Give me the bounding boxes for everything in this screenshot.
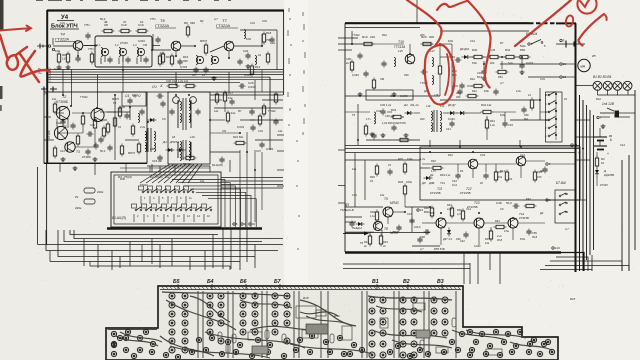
wire node rows right: [562, 63, 575, 65]
wire stub y203 from seam: [338, 202, 345, 204]
diode Д7: [460, 111, 464, 115]
pcb part small: [330, 334, 334, 343]
svg-text:Т3: Т3: [76, 150, 80, 154]
svg-text:4,7: 4,7: [565, 227, 569, 231]
wire r-extra-1: [345, 27, 420, 29]
stub lines from seam y44: [338, 43, 362, 45]
wire drop rp e: [499, 253, 501, 285]
svg-text:8,8к: 8,8к: [448, 39, 454, 43]
PCB divider lines: [197, 291, 199, 358]
svg-text:0,033: 0,033: [237, 125, 244, 129]
capacitor C25b: [240, 83, 242, 88]
wire r-extra-4: [345, 95, 440, 97]
svg-text:10: 10: [601, 161, 605, 165]
svg-text:R15: R15: [166, 55, 172, 59]
pad: [425, 351, 430, 356]
PCB pad column B7: [272, 293, 278, 299]
svg-text:С45: С45: [490, 48, 496, 52]
bracket wire 5: [202, 196, 251, 228]
pad: [387, 349, 392, 354]
frame inner vertical wire: [37, 167, 39, 245]
junction: [62, 94, 64, 96]
svg-text:220: 220: [370, 35, 375, 39]
wire l-extra-8: [269, 77, 271, 150]
wire l-extra-23: [210, 151, 240, 153]
filter cell 3 coil: [137, 48, 139, 57]
bus line 6: [48, 81, 241, 83]
capacitor Cy2: [363, 72, 368, 74]
wire fan 1: [146, 164, 174, 183]
junction: [261, 45, 263, 47]
resistor R21 mid: [438, 66, 441, 74]
node 3: [528, 43, 530, 45]
svg-text:Т1ГЕ2А-Б: Т1ГЕ2А-Б: [340, 208, 354, 212]
pad: [265, 349, 270, 354]
resistor R37b: [489, 231, 492, 239]
svg-text:0,033: 0,033: [180, 65, 187, 69]
svg-text:С38: С38: [420, 235, 425, 239]
pad: [497, 352, 502, 357]
wire rp jack line2: [619, 116, 630, 118]
svg-text:L5: L5: [564, 97, 567, 101]
svg-text:47: 47: [123, 20, 127, 24]
pcb part small: [226, 344, 230, 353]
svg-text:R12: R12: [470, 77, 475, 81]
junction: [62, 119, 64, 121]
ground: [393, 92, 395, 94]
connector block inner rect: [114, 175, 218, 224]
ground: [58, 65, 60, 67]
PCB pad column B7 extra: [272, 329, 278, 335]
capacitor Cx9: [249, 110, 254, 112]
svg-text:МП37: МП37: [112, 97, 120, 101]
junction: [404, 211, 406, 213]
pcb part outline: [316, 310, 326, 316]
svg-text:КТ315Б: КТ315Б: [519, 216, 529, 220]
node 10: [249, 223, 251, 225]
pad: [417, 347, 422, 352]
junction: [246, 151, 248, 153]
wire block to bus: [549, 163, 575, 165]
wire bl h8: [90, 265, 230, 267]
right block frame top edge: [345, 22, 529, 24]
right block frame top dashes: [529, 22, 556, 24]
pad: [123, 347, 128, 352]
resistor R9: [186, 27, 189, 35]
svg-text:С9: С9: [500, 207, 504, 211]
svg-text:В3: В3: [437, 279, 444, 285]
ground: [405, 133, 407, 135]
junction: [96, 107, 98, 109]
connector row boxes r1: [139, 186, 144, 190]
svg-text:R21: R21: [364, 240, 369, 244]
resistor R8: [57, 54, 60, 62]
red curve into loop top: [407, 0, 442, 46]
svg-text:10: 10: [252, 222, 256, 226]
svg-text:50,0: 50,0: [100, 17, 106, 21]
wire r-extra-7: [345, 159, 420, 161]
svg-text:11З: 11З: [555, 246, 560, 250]
sub-block frame row2: [44, 92, 147, 163]
contact r2-7: [195, 209, 197, 211]
svg-text:30,8: 30,8: [532, 235, 538, 239]
wire bl h3: [38, 244, 284, 246]
wire r-extra-16: [519, 140, 521, 147]
node 7: [597, 116, 599, 118]
label C4 SchRO box: [122, 92, 146, 106]
capacitor C45m: [483, 174, 488, 176]
wire drop: [204, 251, 206, 271]
ground: [94, 157, 96, 159]
wire off-page top: [416, 0, 418, 23]
wire bl h6: [64, 230, 262, 242]
capacitor C43: [455, 174, 460, 176]
wire rp tie3: [576, 199, 587, 201]
svg-text:Д4: Д4: [403, 103, 408, 107]
red small o loop: [565, 15, 574, 27]
junction: [429, 151, 431, 153]
junction: [194, 45, 196, 47]
junction: [147, 121, 149, 123]
svg-text:ГТ322А: ГТ322А: [55, 37, 69, 42]
pad: [249, 353, 254, 358]
pad: [469, 347, 474, 352]
svg-text:R18: R18: [303, 296, 309, 300]
svg-text:R7: R7: [500, 41, 504, 45]
wire bl drop20: [141, 245, 143, 263]
transistor T14: [436, 218, 446, 228]
svg-text:R9: R9: [184, 21, 188, 25]
svg-text:300: 300: [490, 61, 495, 65]
wire filter to T5: [152, 49, 171, 51]
wire rp sw box: [546, 92, 563, 142]
frame left lower continuation: [46, 164, 48, 245]
node 9: [241, 223, 243, 225]
svg-text:R7: R7: [238, 109, 242, 113]
coil L6: [255, 56, 257, 65]
left page tone: [0, 0, 284, 360]
wire r-extra-5: [357, 104, 359, 145]
pad: [517, 329, 522, 334]
svg-text:С31: С31: [376, 109, 381, 113]
pad: [505, 331, 510, 336]
wire drop: [246, 229, 248, 263]
PCB tick V3: [441, 284, 443, 290]
resistor R34 left: [393, 115, 401, 118]
bus under t9: [345, 232, 430, 234]
svg-text:R18: R18: [266, 31, 272, 35]
capacitor Cy9: [349, 222, 354, 224]
capacitor C48: [514, 203, 516, 208]
pad: [395, 343, 400, 348]
svg-text:R32: R32: [431, 159, 436, 163]
PCB outline: [106, 286, 558, 360]
capacitor C21: [237, 60, 242, 62]
junction: [77, 55, 79, 57]
resistor Ry3: [364, 126, 367, 134]
transistor T8 MP37: [373, 221, 382, 230]
wire l-extra-5: [276, 30, 278, 70]
svg-text:Д8: Д8: [421, 181, 426, 185]
bus line 1: [48, 69, 284, 71]
junction: [451, 56, 453, 58]
seam speckle marks: [288, 8, 305, 250]
svg-text:С37: С37: [407, 212, 412, 216]
svg-text:200: 200: [430, 211, 435, 215]
right block frame left vertical: [344, 23, 346, 252]
svg-text:50,0: 50,0: [500, 169, 506, 173]
transistor T7: [224, 41, 234, 51]
resistor R44 below: [474, 84, 482, 87]
double bus line A: [345, 145, 580, 147]
PCB pad column B4 extra: [207, 329, 213, 335]
pad: [341, 351, 346, 356]
wire drop rp d: [489, 253, 491, 271]
junction: [439, 43, 441, 45]
junction: [254, 169, 256, 171]
svg-text:КД105Б: КД105Б: [604, 173, 614, 177]
switch column wires: [555, 92, 557, 140]
wire r-extra-8: [354, 153, 356, 208]
svg-text:R13: R13: [255, 65, 261, 69]
wires above connector: [120, 167, 210, 169]
junction: [94, 119, 96, 121]
contact r1-6: [187, 191, 189, 193]
junction: [501, 56, 503, 58]
capacitor Cx10: [93, 144, 98, 146]
junction: [521, 56, 523, 58]
filter cell leads: [100, 58, 102, 65]
svg-text:И5: И5: [592, 54, 596, 58]
wire l-extra-19: [151, 164, 153, 172]
svg-text:200: 200: [456, 95, 461, 99]
battery cell 1 long: [594, 136, 607, 138]
svg-text:0,039: 0,039: [244, 73, 251, 77]
red diagonal to junction: [515, 0, 571, 46]
capacitor Cx7: [219, 158, 224, 160]
svg-text:С28: С28: [346, 57, 351, 61]
transformer Tr1 core: [147, 128, 149, 152]
svg-text:ГТ322: ГТ322: [352, 33, 360, 37]
diode Д11: [447, 230, 451, 234]
junction: [582, 148, 584, 150]
svg-text:Б4: Б4: [207, 279, 214, 285]
vertical bus bundle right: [579, 95, 581, 271]
junction: [82, 112, 84, 114]
wire bl h5: [58, 230, 255, 257]
red arrow top-left: [0, 28, 30, 30]
resistor R25 100k: [403, 186, 406, 194]
wire stub y185 from seam: [338, 185, 345, 187]
pcb part small: [282, 334, 286, 343]
svg-text:100,0: 100,0: [414, 225, 421, 229]
svg-text:Р4: Р4: [460, 169, 464, 173]
svg-text:6: 6: [610, 138, 612, 142]
wire bl h1: [70, 230, 218, 235]
svg-text:С31: С31: [250, 21, 255, 25]
switch column contact 9: [548, 111, 550, 113]
svg-text:Д9 Д10: Д9 Д10: [460, 47, 470, 51]
svg-text:В1 В2 В3 В4: В1 В2 В3 В4: [593, 75, 611, 79]
svg-text:0,033: 0,033: [448, 117, 455, 121]
resistor R19 top: [364, 42, 372, 45]
svg-text:50,0: 50,0: [506, 201, 512, 205]
lamp lamp V1: [593, 81, 602, 90]
junction: [579, 152, 581, 154]
contact r2-4: [165, 209, 167, 211]
resistor R2: [53, 104, 56, 112]
svg-text:КТ306Б: КТ306Б: [56, 100, 69, 104]
contact r1-5: [178, 191, 180, 193]
pcb part small: [420, 340, 424, 349]
battery cell 2 long: [594, 145, 607, 147]
transistor T16: [508, 218, 518, 228]
pad: [203, 347, 208, 352]
bus line 5: [48, 79, 284, 81]
svg-text:330: 330: [404, 73, 409, 77]
resistor Ry6: [403, 164, 406, 172]
wire l-extra-12: [62, 70, 64, 96]
svg-text:2+3: 2+3: [497, 234, 502, 238]
capacitor C25: [195, 110, 200, 112]
resistor R10b right col: [226, 113, 229, 121]
bracket wire 2: [184, 186, 235, 227]
capacitor Cx11: [70, 124, 75, 126]
pad: [267, 342, 272, 347]
svg-text:R54: R54: [334, 314, 340, 318]
coil L18 in red loop: [432, 76, 434, 85]
pad: [309, 333, 314, 338]
svg-text:Д5: Д5: [344, 203, 349, 207]
red letter X stroke 1: [20, 54, 39, 82]
svg-text:330: 330: [183, 59, 188, 63]
junction: [188, 94, 190, 96]
wire l-extra-15: [122, 70, 124, 93]
vertical drop a: [77, 50, 79, 56]
svg-text:500к: 500к: [520, 44, 526, 48]
node 11З: [552, 247, 554, 249]
pad: [549, 349, 554, 354]
wire drop: [97, 245, 99, 269]
svg-text:8,8к: 8,8к: [520, 237, 526, 241]
bracket wire 0: [172, 180, 225, 228]
capacitor C8 top: [104, 29, 112, 32]
svg-text:С20 С13 1,2к L11: С20 С13 1,2к L11: [166, 79, 189, 83]
contact r2-6: [185, 209, 187, 211]
diode Д1: [168, 148, 172, 152]
junction: [409, 53, 411, 55]
wire T4 collector: [83, 45, 96, 47]
contact r2-8: [205, 209, 207, 211]
pad: [493, 329, 498, 334]
pad: [323, 339, 328, 344]
rls contact 1: [559, 195, 561, 197]
wire r-extra-19: [412, 245, 440, 247]
junction: [429, 206, 431, 208]
node 6: [546, 199, 548, 201]
PCB hatch top: [162, 287, 460, 289]
junction: [575, 145, 577, 147]
svg-text:УПЧ: УПЧ: [88, 47, 94, 51]
pad: [327, 349, 332, 354]
wire t9 cluster: [345, 206, 383, 208]
resistor Rx11: [137, 144, 140, 152]
pcb part small: [265, 330, 269, 339]
svg-text:С30 12к: С30 12к: [385, 114, 395, 118]
svg-text:Б5: Б5: [173, 279, 180, 285]
PCB trace curves: [116, 292, 552, 356]
pad: [150, 341, 155, 346]
resistor Ry5: [375, 166, 378, 174]
svg-text:L5: L5: [118, 125, 121, 129]
wire lx35: [44, 139, 54, 141]
svg-text:1,04 R39 8,8к: 1,04 R39 8,8к: [382, 121, 399, 125]
diode Д6: [450, 111, 454, 115]
wire r-extra-10: [420, 167, 430, 169]
resistor Ry1: [350, 62, 353, 70]
wire l-extra-4: [240, 29, 277, 31]
resistor R48: [526, 204, 534, 207]
contact r1-3: [160, 191, 162, 193]
capacitor Cy7: [521, 108, 526, 110]
svg-text:В4: В4: [524, 117, 528, 121]
wire lx33: [62, 120, 64, 126]
svg-text:L7ч: L7ч: [366, 117, 371, 121]
svg-text:КТ315Б: КТ315Б: [430, 191, 441, 195]
resistor R35: [494, 172, 497, 180]
pad: [467, 329, 472, 334]
resistor R44b: [496, 225, 504, 228]
pad: [455, 347, 460, 352]
bus line C: [345, 152, 575, 154]
wire l-extra-1: [52, 38, 54, 45]
pad: [143, 329, 148, 334]
resistor R13: [250, 66, 253, 74]
connector block thick bottom: [107, 227, 262, 229]
red loop inner doubling: [445, 54, 449, 95]
svg-text:L8: L8: [172, 135, 176, 139]
svg-text:R37: R37: [485, 237, 490, 241]
red letter X stroke 2: [20, 51, 50, 77]
IF filter box: [95, 36, 152, 67]
transistor T2: [56, 106, 69, 119]
wire r-extra-2: [440, 30, 529, 32]
svg-text:Ф2: Ф2: [200, 19, 204, 23]
pad: [441, 349, 446, 354]
PCB tick B6: [245, 284, 247, 290]
capacitor C33 mid: [502, 122, 507, 124]
double bus line B: [345, 148, 580, 150]
pad: [359, 347, 364, 352]
svg-text:С30 1,2к: С30 1,2к: [380, 103, 392, 107]
svg-text:Т6: Т6: [352, 113, 356, 117]
wire rp right edge: [634, 90, 636, 250]
junction: [95, 45, 97, 47]
svg-text:КТ306: КТ306: [82, 155, 91, 159]
scatter tiny labels: [52, 17, 625, 251]
svg-text:R44: R44: [495, 219, 500, 223]
vertical drop e: [261, 70, 263, 92]
red check circle top right: [577, 0, 596, 14]
capacitor C7: [124, 114, 129, 116]
wire l-extra-2: [84, 45, 96, 47]
svg-text:200: 200: [420, 117, 425, 121]
svg-text:Т1: Т1: [63, 125, 67, 129]
wire drop: [111, 251, 113, 271]
pcb part outline: [436, 347, 448, 353]
svg-text:С5: С5: [192, 73, 196, 77]
pad: [111, 331, 116, 336]
